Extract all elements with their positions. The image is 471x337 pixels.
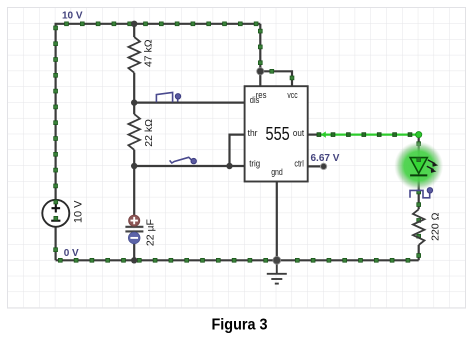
ground symbol <box>267 260 287 283</box>
wire: bottom rail <box>56 259 419 261</box>
probe dot trig <box>191 158 196 163</box>
svg-text:Figura 3: Figura 3 <box>212 317 268 334</box>
current squares out net <box>317 133 412 137</box>
wire: vcc stub <box>260 71 292 86</box>
battery source 10V <box>42 200 84 227</box>
current squares bottom rail <box>58 258 409 262</box>
svg-text:22 µF: 22 µF <box>145 219 157 246</box>
wire: res stub <box>259 71 261 86</box>
wire: ctrl stub <box>308 165 324 167</box>
node dis junction <box>131 99 137 105</box>
svg-text:10 V: 10 V <box>62 11 83 22</box>
probe pulse on dis <box>156 92 177 102</box>
probe dot led branch <box>427 188 432 193</box>
wire: middle column <box>133 24 135 260</box>
svg-text:22 kΩ: 22 kΩ <box>143 119 155 147</box>
svg-text:0 V: 0 V <box>64 248 79 259</box>
svg-text:thr: thr <box>248 128 258 139</box>
svg-text:gnd: gnd <box>271 167 283 178</box>
IC 555 <box>245 86 308 181</box>
node vcc junction <box>257 68 264 75</box>
current squares vcc drop <box>258 29 294 80</box>
resistor 220 <box>413 209 442 245</box>
svg-text:10 V: 10 V <box>72 200 84 223</box>
probe dot dis <box>175 94 180 99</box>
current squares top rail <box>65 22 258 26</box>
svg-text:555: 555 <box>266 123 290 144</box>
svg-text:47 kΩ: 47 kΩ <box>142 39 154 67</box>
probe ramp on trig <box>170 157 193 163</box>
current squares left rail <box>54 26 58 252</box>
node top middle <box>131 21 137 27</box>
node cap bottom <box>131 257 137 263</box>
meter dot ctrl <box>321 163 327 169</box>
probe pulse on led branch <box>410 190 430 197</box>
led D1 <box>410 158 438 176</box>
svg-text:6.67 V: 6.67 V <box>311 153 340 164</box>
svg-text:220 Ω: 220 Ω <box>430 212 442 240</box>
svg-text:ctrl: ctrl <box>294 159 304 170</box>
led glow <box>394 142 443 191</box>
current squares led branch <box>417 142 421 258</box>
node trig junction <box>131 163 137 169</box>
svg-text:trig: trig <box>249 159 260 170</box>
wire: gnd stub <box>276 182 278 261</box>
wire: dis row <box>134 101 244 103</box>
wire: vcc drop <box>259 24 261 72</box>
node led top green <box>416 132 422 138</box>
wire: out net green <box>318 133 419 135</box>
node ground junction <box>273 256 281 264</box>
wire: trig row <box>134 165 244 167</box>
svg-text:dis: dis <box>250 95 260 106</box>
svg-text:vcc: vcc <box>287 90 297 101</box>
wire: thr link <box>230 135 245 166</box>
svg-text:out: out <box>293 128 304 139</box>
wire: top rail <box>56 24 261 260</box>
node thr-trig link <box>226 163 232 169</box>
resistor 22k <box>128 114 155 150</box>
wire: out stub <box>308 134 318 136</box>
capacitor 22uF electrolytic <box>125 215 156 246</box>
resistor 47k <box>128 37 154 73</box>
current arrow out net <box>321 131 326 137</box>
wire: led branch <box>418 135 420 261</box>
